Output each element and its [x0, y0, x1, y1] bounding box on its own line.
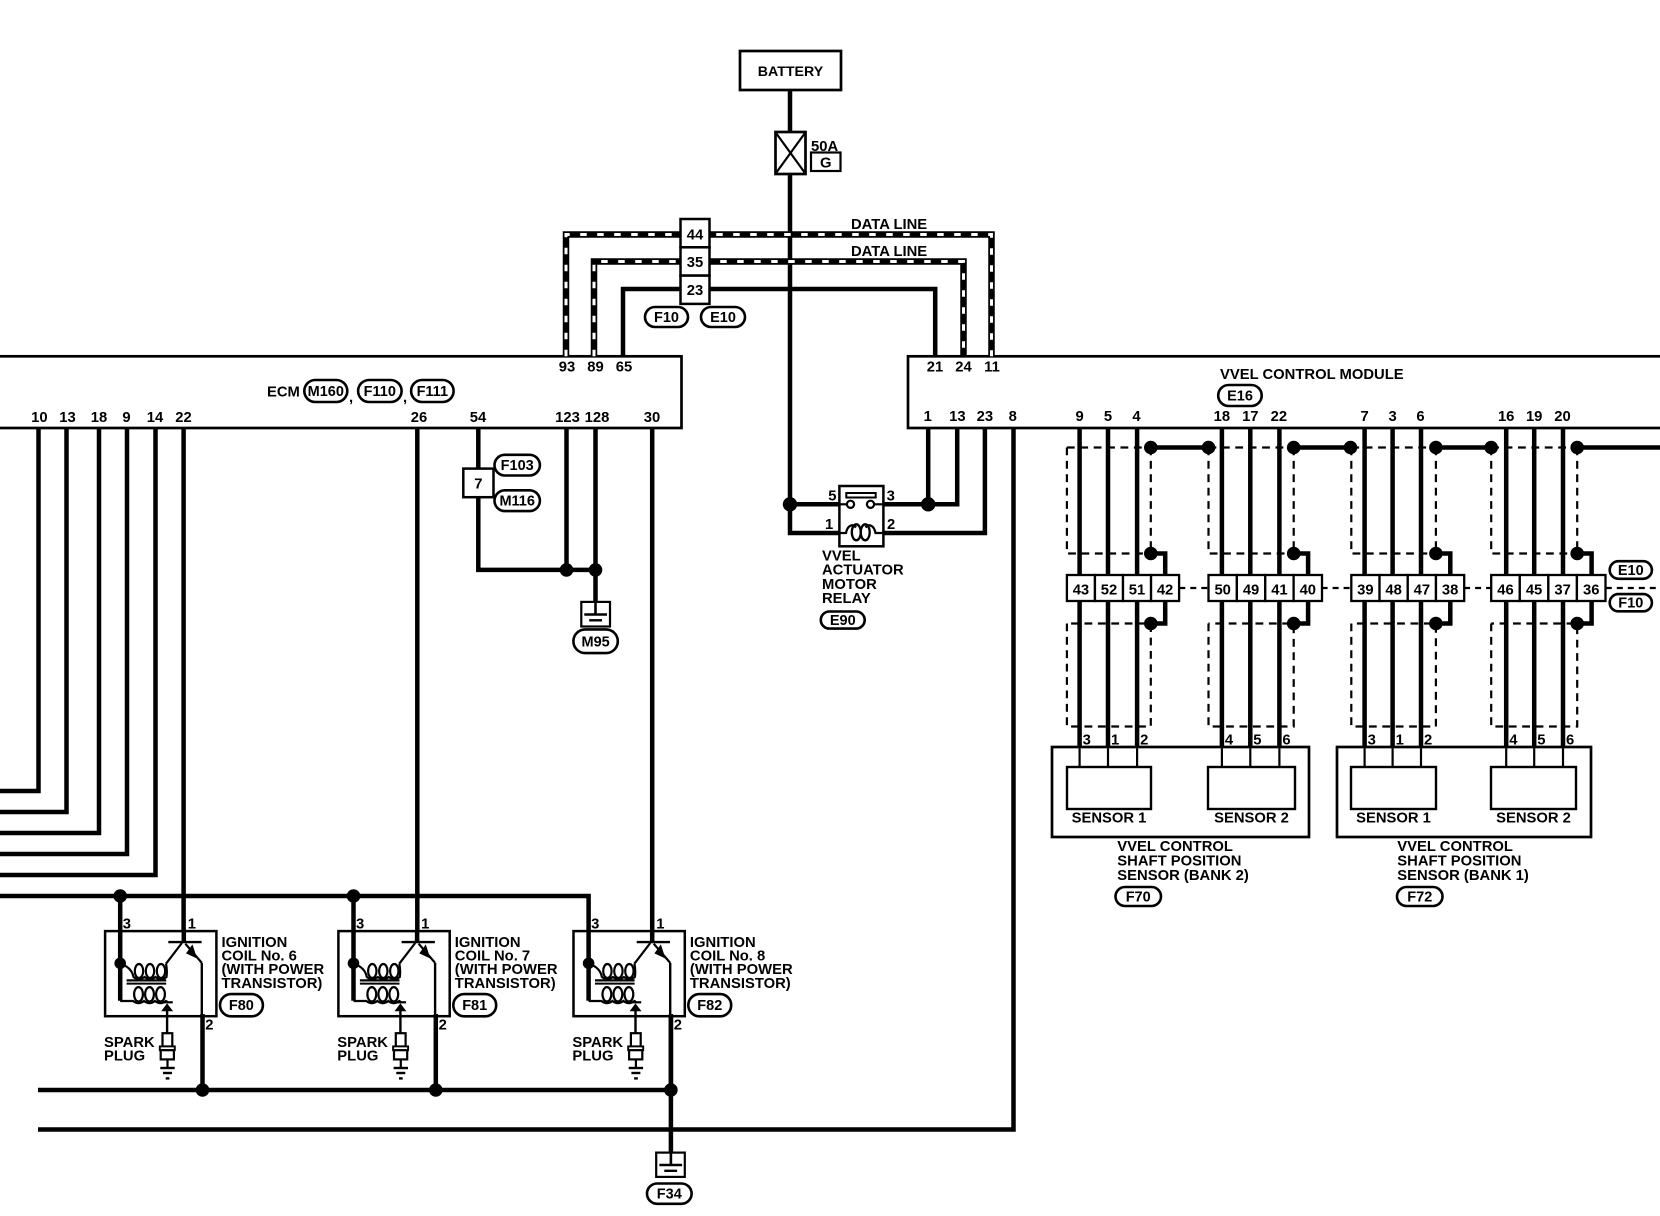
relay VVEL actuator motor relay E90 box	[839, 486, 883, 546]
label SENSOR 1 (bank 2)	[1072, 811, 1147, 827]
coil F81 internal junction	[348, 958, 360, 970]
coil F80 transistor emitter	[185, 944, 202, 963]
coil F82 pin 3 internal wire	[586, 932, 591, 1001]
sensor 1 box (bank 2)	[1067, 767, 1151, 809]
sensor pin 3 (group 3)	[1368, 733, 1376, 749]
VVEL bottom pin 20	[1554, 409, 1570, 425]
label VVEL CONTROL MODULE	[1220, 367, 1404, 383]
ECM bottom pin 128	[585, 410, 610, 426]
svg-text:44: 44	[687, 228, 704, 244]
wire ECM pin 9 exit left	[0, 428, 127, 854]
wire ECM pin 14 exit left	[0, 428, 156, 875]
svg-text:39: 39	[1357, 582, 1373, 598]
coil F80 emitter wire to pin 2	[201, 963, 203, 1016]
wire bus to coil F80 pin 3	[118, 896, 123, 932]
svg-text:SHAFT POSITION: SHAFT POSITION	[1117, 854, 1241, 870]
coil F80 internal junction	[114, 958, 126, 970]
fuse 50A	[776, 132, 806, 174]
wire coil F82 pin 2 to ground F34	[669, 1016, 674, 1153]
coil F81 emitter wire to pin 2	[434, 963, 436, 1016]
ECM bottom pin 14	[147, 410, 164, 426]
drain elbow from connector (group 2)	[1294, 601, 1308, 624]
svg-text:BATTERY: BATTERY	[758, 64, 824, 80]
wire VVEL to sensor group1 wire3	[1135, 428, 1140, 747]
connector 7 box	[463, 469, 493, 498]
wire VVEL to sensor group1 wire2	[1106, 428, 1111, 747]
coil F82 pin 3 label	[591, 917, 599, 933]
svg-text:1: 1	[188, 917, 196, 933]
comma	[403, 390, 407, 406]
coil F81 pin 1 label	[421, 917, 429, 933]
svg-text:18: 18	[91, 410, 107, 426]
shield drain bus segment 1	[1151, 445, 1209, 450]
coil F81 transistor emitter	[419, 944, 436, 963]
svg-text:6: 6	[1282, 733, 1290, 749]
svg-text:42: 42	[1157, 582, 1173, 598]
svg-text:36: 36	[1583, 582, 1599, 598]
svg-text:22: 22	[1271, 409, 1287, 425]
VVEL bottom pin 18	[1214, 409, 1230, 425]
svg-text:SENSOR 1: SENSOR 1	[1072, 811, 1147, 827]
coil F81 transistor bar	[402, 941, 435, 943]
sensor pin 2 (group 3)	[1424, 733, 1432, 749]
coil F80 pin 1 label	[188, 917, 196, 933]
connector row boxes (group 4)	[1491, 575, 1605, 601]
VVEL bottom pin 22	[1271, 409, 1287, 425]
svg-text:F80: F80	[229, 998, 254, 1014]
svg-text:SENSOR 2: SENSOR 2	[1214, 811, 1289, 827]
svg-text:7: 7	[1360, 409, 1368, 425]
svg-text:F111: F111	[417, 384, 448, 400]
svg-text:F10: F10	[1618, 596, 1643, 612]
sensor pin 1 (group 1)	[1111, 733, 1119, 749]
svg-text:SENSOR (BANK 1): SENSOR (BANK 1)	[1397, 868, 1529, 884]
svg-text:M116: M116	[499, 494, 534, 510]
sensor stub wires (group 4)	[1506, 748, 1563, 767]
svg-text:14: 14	[147, 410, 164, 426]
svg-text:3: 3	[1083, 733, 1091, 749]
wire ECM pin 123 to splice	[564, 428, 569, 570]
svg-text:23: 23	[977, 409, 993, 425]
drain elbow to connector (group 3)	[1436, 554, 1450, 576]
VVEL bottom pin 8	[1009, 409, 1017, 425]
svg-text:22: 22	[175, 410, 191, 426]
drain elbow to connector (group 4)	[1577, 554, 1591, 576]
junction splice 123	[560, 563, 574, 577]
svg-text:E10: E10	[1618, 563, 1644, 579]
svg-text:65: 65	[616, 360, 632, 376]
svg-text:5: 5	[1253, 733, 1261, 749]
wire battery to fuse	[788, 90, 793, 132]
connector ref F10 (right)	[1610, 594, 1652, 612]
svg-text:40: 40	[1300, 582, 1316, 598]
coil F80 secondary winding	[120, 987, 167, 1003]
sensor 2 box (bank 1)	[1491, 767, 1576, 809]
connector ref F34	[647, 1184, 692, 1204]
wire VVEL to sensor group3 wire2	[1390, 428, 1395, 747]
svg-text:,: ,	[349, 390, 353, 406]
wire relay pin 2 to VVEL pin 23	[883, 428, 985, 533]
svg-text:E90: E90	[830, 613, 856, 629]
svg-text:89: 89	[587, 360, 603, 376]
coil F82 transistor base diagonal	[634, 943, 650, 964]
connector ref F70	[1116, 887, 1162, 906]
ECM module box	[0, 356, 682, 428]
svg-text:7: 7	[474, 477, 482, 493]
svg-text:F110: F110	[364, 384, 396, 400]
ECM bottom pin 54	[470, 410, 487, 426]
coil F81 pin 2 label	[439, 1018, 447, 1034]
label SPARK PLUG (coil F81)	[337, 1035, 388, 1064]
coil F82 secondary diode	[630, 1002, 642, 1011]
relay coil	[841, 524, 883, 540]
shield drain junction lower (group 3)	[1429, 617, 1443, 631]
ground M95	[581, 602, 610, 627]
drain elbow from connector (group 1)	[1151, 601, 1165, 624]
svg-text:RELAY: RELAY	[822, 591, 871, 607]
svg-text:G: G	[820, 156, 832, 172]
shield drain bus segment 2	[1294, 445, 1351, 450]
wire ECM 65 to VVEL 21	[623, 289, 935, 356]
wire VVEL to sensor group2 wire1	[1220, 428, 1225, 747]
coil F80 pin 3 label	[123, 917, 131, 933]
ECM top pin 93	[559, 360, 575, 376]
svg-text:2: 2	[674, 1018, 682, 1034]
coil secondary ground bus	[38, 1088, 671, 1093]
coil F82 transistor emitter	[654, 944, 671, 963]
sensor stub wires (group 2)	[1222, 748, 1280, 767]
svg-text:3: 3	[123, 917, 131, 933]
svg-text:E16: E16	[1227, 389, 1253, 405]
svg-text:SENSOR (BANK 2): SENSOR (BANK 2)	[1117, 868, 1249, 884]
wire ECM pin 22 to coil F80 pin 1	[181, 428, 186, 932]
svg-text:5: 5	[828, 489, 836, 505]
coil F80 transistor collector	[182, 932, 187, 941]
svg-text:3: 3	[591, 917, 599, 933]
svg-text:6: 6	[1416, 409, 1424, 425]
label ECM	[267, 385, 300, 401]
coil F82 transistor collector	[650, 932, 655, 941]
coil F81 secondary diode	[395, 1002, 407, 1011]
shield drain bus segment 3	[1436, 445, 1491, 450]
connector ref M160	[304, 380, 347, 402]
wire splice to relay pin 5	[790, 502, 839, 507]
wire ECM pin 10 exit left	[0, 428, 39, 791]
ignition coil F82 box	[574, 931, 685, 1016]
ECM top pin 65	[616, 360, 632, 376]
svg-text:TRANSISTOR): TRANSISTOR)	[222, 976, 323, 992]
sensor pin 1 (group 3)	[1396, 733, 1404, 749]
ECM top pin 89	[587, 360, 603, 376]
connector ref E90	[821, 612, 865, 630]
coil F81 primary winding	[354, 964, 400, 980]
connector ref M116	[495, 490, 540, 511]
svg-text:24: 24	[955, 360, 972, 376]
wire ECM pin 18 exit left	[0, 428, 99, 833]
coil F80 primary winding	[121, 964, 167, 980]
svg-text:4: 4	[1225, 733, 1234, 749]
label VVEL control shaft position sensor bank 1	[1397, 839, 1529, 884]
sensor pin 6 (group 4)	[1566, 733, 1574, 749]
coil F81 pin 3 internal wire	[351, 932, 356, 1001]
shield upper (group 1)	[1067, 448, 1151, 554]
svg-text:2: 2	[439, 1018, 447, 1034]
coil F82 internal junction	[583, 958, 595, 970]
wire VVEL to sensor group4 wire1	[1504, 428, 1509, 747]
label SENSOR 1 (bank 1)	[1356, 811, 1431, 827]
svg-text:4: 4	[1132, 409, 1141, 425]
sensor pin 5 (group 2)	[1253, 733, 1261, 749]
coil F82 emitter wire to pin 2	[669, 963, 671, 1016]
junction battery feed	[783, 497, 797, 511]
svg-text:46: 46	[1497, 582, 1513, 598]
coil F82 pin 2 wire	[669, 1014, 674, 1090]
svg-text:3: 3	[1388, 409, 1396, 425]
label VVEL ACTUATOR MOTOR RELAY	[822, 549, 904, 608]
svg-text:13: 13	[59, 410, 75, 426]
wire ECM pin 128 to ground M95	[593, 428, 598, 615]
shield drain junction upper (group 2)	[1287, 547, 1301, 561]
VVEL bottom pin 17	[1242, 409, 1258, 425]
svg-text:VVEL CONTROL: VVEL CONTROL	[1117, 839, 1233, 855]
connector ref E10	[701, 307, 745, 327]
wire fuse to relay splice	[788, 174, 793, 504]
shield drain junction lower (group 4)	[1570, 617, 1584, 631]
svg-text:123: 123	[555, 410, 580, 426]
coil F80 pin 3 internal wire	[118, 932, 123, 1001]
connector ref F81	[453, 994, 496, 1016]
svg-text:10: 10	[31, 410, 47, 426]
VVEL top pin 24	[955, 360, 972, 376]
shield drain junction top (group 3)	[1429, 441, 1443, 455]
svg-text:18: 18	[1214, 409, 1230, 425]
svg-text:2: 2	[205, 1018, 213, 1034]
wire VVEL to sensor group2 wire2	[1248, 428, 1253, 747]
ECM bottom pin 30	[644, 410, 660, 426]
shield drain bus segment 4	[1577, 445, 1660, 450]
coil F80 core	[127, 980, 167, 983]
svg-text:54: 54	[470, 410, 487, 426]
svg-text:VVEL CONTROL MODULE: VVEL CONTROL MODULE	[1220, 367, 1404, 383]
relay pin 2 label	[887, 517, 895, 533]
wire relay pin 3 to VVEL pins 1/13	[883, 428, 957, 504]
label VVEL control shaft position sensor bank 2	[1117, 839, 1249, 884]
svg-text:128: 128	[585, 410, 610, 426]
VVEL bottom pin 6	[1416, 409, 1424, 425]
label 50A	[811, 139, 838, 155]
wire VVEL pin 1 to splice	[926, 428, 931, 504]
svg-text:F103: F103	[501, 458, 534, 474]
shield drain junction lower (group 2)	[1287, 617, 1301, 631]
shield drain junction top (group 1)	[1144, 441, 1158, 455]
VVEL bottom pin 4	[1132, 409, 1141, 425]
relay contact terminal 3	[867, 501, 883, 508]
drain elbow to connector (group 2)	[1294, 554, 1308, 576]
svg-text:20: 20	[1554, 409, 1570, 425]
shield lower (group 1)	[1067, 624, 1151, 727]
coil F81 core	[360, 980, 400, 983]
connector ref F82	[688, 994, 731, 1016]
shield drain junction top (group 2)	[1287, 441, 1301, 455]
wire ECM pin 26 to coil F81 pin 1	[415, 428, 420, 932]
VVEL bottom pin 19	[1526, 409, 1542, 425]
VVEL bottom pin 13	[949, 409, 965, 425]
ignition coil F80 box	[105, 931, 216, 1016]
svg-text:49: 49	[1243, 582, 1259, 598]
svg-text:VVEL CONTROL: VVEL CONTROL	[1397, 839, 1513, 855]
svg-text:1: 1	[656, 917, 664, 933]
svg-text:47: 47	[1414, 582, 1430, 598]
junction coil F82 pin 2	[664, 1083, 678, 1097]
svg-text:1: 1	[924, 409, 932, 425]
shield upper (group 4)	[1491, 448, 1577, 554]
label ignition coil No. 6	[222, 935, 325, 992]
wire VVEL pin 8 to ground bus	[38, 428, 1014, 1130]
svg-text:,: ,	[403, 390, 407, 406]
junction coil F80 pin 2	[196, 1083, 210, 1097]
relay contact bar	[846, 493, 875, 498]
svg-text:3: 3	[1368, 733, 1376, 749]
sensor pin 4 (group 2)	[1225, 733, 1234, 749]
coil F82 core	[595, 980, 635, 983]
svg-text:48: 48	[1385, 582, 1401, 598]
VVEL bottom pin 9	[1075, 409, 1083, 425]
ECM bottom pin 13	[59, 410, 75, 426]
svg-text:21: 21	[927, 360, 943, 376]
drain elbow from connector (group 4)	[1577, 601, 1591, 624]
label ignition coil No. 8	[690, 935, 793, 992]
coil F81 pin 3 label	[356, 917, 364, 933]
ignition coil feed bus	[0, 896, 589, 932]
svg-text:E10: E10	[710, 310, 736, 326]
svg-text:M95: M95	[581, 634, 609, 650]
svg-text:8: 8	[1009, 409, 1017, 425]
connector ref F72	[1397, 887, 1443, 906]
coil F82 transistor bar	[637, 941, 670, 943]
wire ECM pin 13 exit left	[0, 428, 67, 812]
coil F82 wire to spark plug	[634, 1010, 636, 1033]
coil F81 pin 2 wire	[434, 1014, 439, 1090]
coil F82 secondary winding	[589, 987, 636, 1003]
svg-text:5: 5	[1104, 409, 1112, 425]
wire bus to coil F81 pin 3	[351, 896, 356, 932]
svg-text:2: 2	[1424, 733, 1432, 749]
connector row boxes (group 1)	[1067, 575, 1179, 601]
connector G box	[811, 153, 841, 172]
wire VVEL to sensor group3 wire1	[1362, 428, 1367, 747]
label DATA LINE lower	[851, 244, 927, 260]
connector ref F10	[645, 307, 688, 327]
coil F81 transistor base diagonal	[399, 943, 415, 964]
label ignition coil No. 7	[455, 935, 558, 992]
connector ref F111	[411, 380, 454, 402]
svg-text:41: 41	[1271, 582, 1287, 598]
shield upper (group 2)	[1209, 448, 1294, 554]
svg-text:F34: F34	[657, 1187, 682, 1203]
wire VVEL to sensor group1 wire1	[1077, 428, 1082, 747]
VVEL bottom pin 5	[1104, 409, 1112, 425]
coil F81 transistor collector	[415, 932, 420, 941]
svg-text:SENSOR 1: SENSOR 1	[1356, 811, 1431, 827]
relay pin 3 label	[887, 489, 895, 505]
svg-text:1: 1	[1396, 733, 1404, 749]
coil F80 pin 2 wire	[200, 1014, 205, 1090]
spark plug (coil F80)	[160, 1033, 175, 1078]
shield drain junction upper (group 1)	[1144, 547, 1158, 561]
shield drain junction at group3 left	[1344, 441, 1358, 455]
label SENSOR 2 (bank 2)	[1214, 811, 1289, 827]
VVEL bottom pin 1	[924, 409, 932, 425]
wire VVEL to sensor group4 wire2	[1532, 428, 1537, 747]
sensor pin 4 (group 4)	[1509, 733, 1518, 749]
coil F80 transistor base diagonal	[166, 943, 182, 964]
connector ref F103	[495, 455, 540, 476]
connector row boxes (group 2)	[1209, 575, 1323, 601]
shield lower (group 3)	[1351, 624, 1436, 727]
sensor stub wires (group 3)	[1365, 748, 1421, 767]
connector row dashed link to E10/F10	[1606, 587, 1658, 589]
label DATA LINE upper	[851, 217, 927, 233]
junction splice 128	[589, 563, 603, 577]
coil F80 secondary diode	[161, 1002, 173, 1011]
VVEL control module box	[908, 356, 1660, 428]
svg-text:1: 1	[421, 917, 429, 933]
ECM bottom pin 10	[31, 410, 47, 426]
svg-text:17: 17	[1242, 409, 1258, 425]
svg-text:F81: F81	[462, 998, 487, 1014]
coil F81 wire to spark plug	[399, 1010, 401, 1033]
svg-text:9: 9	[122, 410, 130, 426]
VVEL top pin 21	[927, 360, 943, 376]
sensor pin 2 (group 1)	[1140, 733, 1148, 749]
sensor pin 5 (group 4)	[1537, 733, 1545, 749]
relay pin 1 label	[825, 517, 833, 533]
ECM bottom pin 18	[91, 410, 107, 426]
ECM bottom pin 123	[555, 410, 580, 426]
svg-text:PLUG: PLUG	[337, 1048, 378, 1064]
drain elbow to connector (group 1)	[1151, 554, 1165, 576]
relay pin 5 label	[828, 489, 836, 505]
sensor stub wires (group 1)	[1080, 748, 1138, 767]
svg-text:1: 1	[825, 517, 833, 533]
svg-text:SHAFT POSITION: SHAFT POSITION	[1397, 854, 1521, 870]
connector ref F110	[358, 380, 402, 402]
sensor 1 box (bank 1)	[1351, 767, 1436, 809]
sensor pin 3 (group 1)	[1083, 733, 1091, 749]
wire VVEL to sensor group4 wire3	[1561, 428, 1566, 747]
connector row dashed link 2	[1322, 587, 1352, 589]
shield upper (group 3)	[1351, 448, 1436, 554]
svg-text:2: 2	[1140, 733, 1148, 749]
svg-text:45: 45	[1526, 582, 1542, 598]
junction coil F81 pin 2	[429, 1083, 443, 1097]
connector ref E16	[1218, 385, 1262, 406]
sensor pin 6 (group 2)	[1282, 733, 1290, 749]
svg-text:11: 11	[984, 360, 1000, 376]
shield drain junction at group2 left	[1202, 441, 1216, 455]
spark plug (coil F82)	[628, 1033, 643, 1078]
spark plug (coil F81)	[393, 1033, 408, 1078]
svg-text:TRANSISTOR): TRANSISTOR)	[455, 976, 556, 992]
VVEL bottom pin 16	[1498, 409, 1514, 425]
wire VVEL to sensor group3 wire3	[1419, 428, 1424, 747]
svg-text:26: 26	[411, 410, 427, 426]
ECM bottom pin 26	[411, 410, 427, 426]
svg-text:30: 30	[644, 410, 660, 426]
ECM bottom pin 22	[175, 410, 191, 426]
data line ECM 93 to VVEL 11	[566, 235, 992, 357]
connector ref F80	[220, 994, 263, 1016]
